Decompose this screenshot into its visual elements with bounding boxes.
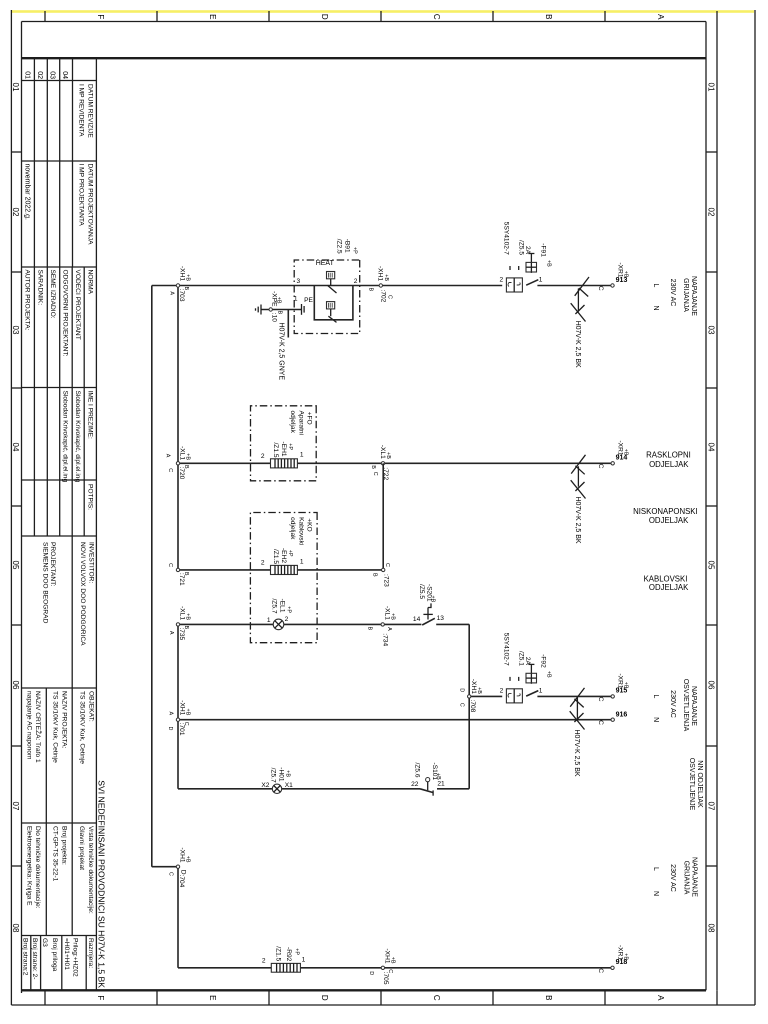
HEAT box bbox=[294, 260, 360, 334]
svg-text:F: F bbox=[96, 14, 105, 19]
svg-text:-F91: -F91 bbox=[539, 243, 546, 257]
svg-text:B: B bbox=[183, 287, 189, 291]
object cell bbox=[25, 691, 94, 764]
svg-text:NAPAJANJE: NAPAJANJE bbox=[691, 857, 698, 897]
svg-text:=H01+H01: =H01+H01 bbox=[63, 938, 70, 970]
svg-text:ODJELJAK: ODJELJAK bbox=[649, 460, 689, 469]
svg-text:/Z5.7: /Z5.7 bbox=[270, 768, 277, 783]
title block row lines bbox=[31, 58, 86, 990]
svg-text:2: 2 bbox=[500, 687, 504, 694]
svg-text:novembar 2022.g.: novembar 2022.g. bbox=[23, 164, 30, 220]
svg-text::705: :705 bbox=[382, 972, 389, 985]
svg-text:22: 22 bbox=[411, 781, 419, 788]
svg-text:B: B bbox=[183, 572, 189, 576]
svg-text:NAZIV CRTEŽA: Trafo 1: NAZIV CRTEŽA: Trafo 1 bbox=[34, 691, 43, 763]
svg-text:1: 1 bbox=[300, 558, 304, 565]
svg-text:03: 03 bbox=[11, 326, 20, 335]
terminal -XH1:705 bbox=[368, 948, 396, 984]
svg-text:-XH1: -XH1 bbox=[178, 847, 185, 862]
svg-text:B: B bbox=[183, 626, 189, 630]
terminal -XPE:10 bbox=[269, 291, 283, 322]
svg-text:+KO: +KO bbox=[306, 518, 313, 531]
svg-text:C: C bbox=[597, 286, 604, 291]
svg-text:TS 35/10kV Kuk, Cetinje: TS 35/10kV Kuk, Cetinje bbox=[51, 691, 58, 763]
svg-text:02: 02 bbox=[36, 71, 43, 79]
ruler numbers bottom bbox=[11, 83, 20, 933]
svg-text:Prilog:+HZ02: Prilog:+HZ02 bbox=[71, 938, 78, 977]
svg-text:C: C bbox=[458, 703, 464, 707]
svg-text:2: 2 bbox=[261, 559, 265, 566]
svg-text:230V AC: 230V AC bbox=[669, 690, 676, 718]
svg-text:913: 913 bbox=[616, 277, 628, 284]
svg-text:A: A bbox=[168, 631, 174, 635]
svg-text:-XH1: -XH1 bbox=[178, 266, 185, 281]
ruler ticks top/bottom bbox=[11, 152, 717, 866]
terminal -XH1:703 bbox=[169, 266, 191, 302]
inner frame top rulers bbox=[716, 22, 718, 991]
svg-text:+P: +P bbox=[293, 948, 299, 955]
zone label NN ODJELJAK OSVJETLJENJE bbox=[688, 758, 703, 811]
svg-text:+FO: +FO bbox=[306, 412, 313, 425]
svg-text:+B: +B bbox=[185, 274, 191, 281]
svg-text:TS 35/10KV Kuk, Cetinje: TS 35/10KV Kuk, Cetinje bbox=[79, 691, 86, 764]
wire EH1 column bbox=[178, 462, 611, 464]
svg-text:07: 07 bbox=[707, 802, 716, 811]
svg-text:03: 03 bbox=[49, 71, 56, 79]
svg-text:X1: X1 bbox=[285, 782, 293, 789]
terminal -XL1:721 bbox=[167, 563, 189, 586]
svg-text:08: 08 bbox=[11, 924, 20, 933]
svg-text:/Z1.5: /Z1.5 bbox=[274, 946, 281, 961]
svg-text:F: F bbox=[96, 995, 105, 1000]
svg-text:C: C bbox=[432, 14, 441, 20]
wire link 722-723 bbox=[382, 463, 384, 570]
terminal -XR1:913 bbox=[597, 262, 628, 290]
svg-text:IME I PREZIME:: IME I PREZIME: bbox=[86, 391, 93, 440]
svg-text:OBJEKAT:: OBJEKAT: bbox=[87, 691, 94, 722]
resistor -R92 bbox=[262, 946, 306, 972]
svg-text:+B: +B bbox=[545, 671, 551, 678]
svg-text:-EH1: -EH1 bbox=[280, 441, 287, 456]
svg-text:5SY4102-7: 5SY4102-7 bbox=[503, 222, 510, 255]
svg-text:POTPIS:: POTPIS: bbox=[86, 484, 93, 510]
svg-text:-XR1: -XR1 bbox=[617, 440, 624, 455]
svg-text:-XH1: -XH1 bbox=[377, 266, 384, 281]
heater element 1 with contact bbox=[327, 272, 337, 294]
terminal -XR1:915 bbox=[597, 673, 628, 701]
svg-text:ODJELJAK: ODJELJAK bbox=[649, 583, 689, 592]
svg-text:+B: +B bbox=[276, 297, 282, 304]
svg-text:Slobodan Krivokapić, dipl.el.i: Slobodan Krivokapić, dipl.el.ing bbox=[62, 391, 69, 483]
svg-text:C: C bbox=[597, 720, 604, 725]
svg-text:H07V-K 2,5 BK: H07V-K 2,5 BK bbox=[574, 497, 581, 544]
svg-text:ODJELJAK: ODJELJAK bbox=[649, 516, 689, 525]
svg-text:-XH1: -XH1 bbox=[470, 679, 477, 694]
svg-text:2: 2 bbox=[262, 958, 266, 965]
terminal -XH1:702 bbox=[368, 266, 393, 303]
svg-text:ODGOVORNI PROJEKTANT:: ODGOVORNI PROJEKTANT: bbox=[62, 270, 69, 357]
heater -EH1 bbox=[261, 441, 304, 467]
svg-text:-XH1: -XH1 bbox=[384, 948, 391, 963]
svg-text::702: :702 bbox=[380, 290, 387, 303]
outer border bottom bbox=[10, 10, 12, 1005]
svg-text:H07V-K 2,5 GNYE: H07V-K 2,5 GNYE bbox=[277, 323, 284, 381]
svg-text:918: 918 bbox=[616, 959, 628, 966]
svg-text:N: N bbox=[652, 891, 659, 896]
terminal -XH1:708 bbox=[458, 679, 482, 713]
wire switched lighting link bbox=[468, 624, 470, 788]
wire lighting N column bbox=[178, 719, 611, 721]
svg-text:01: 01 bbox=[707, 83, 716, 92]
svg-text:A: A bbox=[386, 627, 392, 631]
svg-text::704: :704 bbox=[178, 875, 185, 888]
svg-text:-EH2: -EH2 bbox=[280, 548, 287, 563]
thermostat -B91 labels bbox=[336, 239, 358, 254]
svg-text:I MP REVIDENTA: I MP REVIDENTA bbox=[77, 84, 84, 137]
svg-text:D: D bbox=[368, 971, 374, 975]
svg-text:Broj strana:2: Broj strana:2 bbox=[21, 938, 28, 976]
names column bbox=[62, 391, 94, 511]
svg-text:-XH1: -XH1 bbox=[178, 700, 185, 715]
svg-text:1: 1 bbox=[267, 617, 271, 624]
svg-text:2: 2 bbox=[285, 616, 289, 623]
svg-text::703: :703 bbox=[178, 289, 185, 302]
supply 3 labels bbox=[652, 857, 698, 897]
svg-text:+B: +B bbox=[185, 613, 191, 620]
svg-text:C: C bbox=[387, 969, 393, 973]
svg-text:NOVI VOLVOX DOO PODGORICA: NOVI VOLVOX DOO PODGORICA bbox=[79, 542, 86, 646]
svg-text:02: 02 bbox=[707, 208, 716, 217]
heater loop wire bbox=[314, 286, 353, 320]
svg-text:C: C bbox=[387, 295, 393, 299]
svg-text:SEME IZRADIO:: SEME IZRADIO: bbox=[49, 270, 56, 319]
svg-text:-S101: -S101 bbox=[431, 763, 438, 781]
svg-text:05: 05 bbox=[707, 561, 716, 570]
wire lamp2 column bbox=[437, 788, 469, 790]
sheet edge yellow bbox=[12, 10, 754, 13]
svg-text:C: C bbox=[372, 472, 378, 476]
wire lamp1 column bbox=[436, 623, 469, 625]
svg-text:21: 21 bbox=[437, 780, 445, 787]
svg-text:+B: +B bbox=[385, 452, 391, 459]
svg-text:GRIJANJA: GRIJANJA bbox=[683, 861, 690, 895]
svg-text:SVI NEDEFINISANI PROVODNICI S: SVI NEDEFINISANI PROVODNICI SU H07V-K 1,… bbox=[97, 780, 107, 988]
svg-text:N: N bbox=[652, 717, 659, 722]
PE line bbox=[261, 296, 313, 338]
svg-text:06: 06 bbox=[11, 681, 20, 690]
svg-text:DATUM REVIZIJE: DATUM REVIZIJE bbox=[86, 84, 93, 138]
terminal -XL1:722 bbox=[370, 445, 391, 481]
heater element 2 with contact bbox=[327, 302, 337, 323]
svg-text:01: 01 bbox=[11, 83, 20, 92]
svg-text:/Z1.5: /Z1.5 bbox=[272, 549, 279, 564]
svg-text:AUTOR PROJEKTA:: AUTOR PROJEKTA: bbox=[23, 270, 30, 331]
inner frame right bbox=[22, 989, 707, 991]
svg-text:2: 2 bbox=[500, 277, 504, 284]
lamp -H01 bbox=[261, 767, 293, 793]
svg-text:INVESTITOR:: INVESTITOR: bbox=[87, 542, 94, 583]
svg-text:2: 2 bbox=[354, 278, 358, 285]
zone label KABLOVSKI ODJELJAK bbox=[644, 575, 690, 592]
svg-text:5SY4102-7: 5SY4102-7 bbox=[503, 633, 510, 666]
ruler letters right bbox=[96, 995, 665, 1001]
heater -EH2 bbox=[261, 548, 304, 575]
svg-text:NN ODJELJAK: NN ODJELJAK bbox=[696, 760, 703, 808]
svg-text:B: B bbox=[372, 573, 378, 577]
svg-text:02: 02 bbox=[11, 208, 20, 217]
svg-text:H07V-K 2,5 BK: H07V-K 2,5 BK bbox=[574, 321, 581, 368]
lamp -EL1 bbox=[267, 598, 292, 629]
investor cell bbox=[42, 542, 95, 646]
svg-text:D: D bbox=[320, 995, 329, 1001]
svg-text:NISKONAPONSKI: NISKONAPONSKI bbox=[633, 507, 698, 516]
svg-text:DATUM PROJEKTOVANJA: DATUM PROJEKTOVANJA bbox=[86, 164, 93, 246]
svg-text:/Z5.5: /Z5.5 bbox=[517, 240, 524, 255]
svg-text:odjeljak: odjeljak bbox=[289, 411, 296, 434]
terminal -XH1:701 bbox=[167, 700, 190, 736]
svg-text:Broj projekta:: Broj projekta: bbox=[60, 826, 67, 865]
svg-text:/Z5.6: /Z5.6 bbox=[414, 763, 421, 778]
svg-text:01: 01 bbox=[23, 71, 30, 79]
svg-text:+B: +B bbox=[185, 709, 191, 716]
terminal -XR1:914 bbox=[597, 440, 628, 468]
svg-text:N: N bbox=[652, 305, 659, 310]
svg-text:-XR1: -XR1 bbox=[617, 673, 624, 688]
svg-text:NAPAJANJE: NAPAJANJE bbox=[690, 686, 697, 726]
svg-text:916: 916 bbox=[616, 711, 628, 718]
svg-text:Aparatni: Aparatni bbox=[297, 411, 304, 436]
svg-text:1: 1 bbox=[302, 957, 306, 964]
svg-text:3: 3 bbox=[297, 278, 301, 285]
wire link L rail to 704 bbox=[152, 866, 178, 868]
cable marker supply 914 bbox=[571, 455, 586, 499]
svg-text:odjeljak: odjeljak bbox=[289, 517, 296, 540]
wire R92 column bbox=[178, 967, 611, 969]
svg-text:D: D bbox=[320, 14, 329, 20]
svg-text:D: D bbox=[167, 727, 173, 731]
supply 1 labels bbox=[652, 276, 697, 316]
svg-text:B: B bbox=[366, 627, 372, 631]
svg-text:B: B bbox=[544, 995, 553, 1000]
supply 2 labels bbox=[652, 679, 697, 732]
svg-text:2: 2 bbox=[261, 453, 265, 460]
svg-text:napajanje AC naponom: napajanje AC naponom bbox=[25, 691, 32, 760]
svg-text:Dio tehničke dokumentacije:: Dio tehničke dokumentacije: bbox=[34, 826, 41, 909]
svg-text:1: 1 bbox=[300, 452, 304, 459]
svg-text:+B: +B bbox=[185, 856, 191, 863]
wire heater circuit column bbox=[537, 285, 611, 287]
svg-text:C: C bbox=[167, 872, 173, 876]
svg-text:230V AC: 230V AC bbox=[669, 279, 676, 307]
svg-text:915: 915 bbox=[616, 688, 628, 695]
svg-text:1: 1 bbox=[539, 277, 543, 284]
zone label NISKONAPONSKI ODJELJAK bbox=[633, 507, 698, 525]
wire N rail segment 1 bbox=[177, 286, 179, 570]
svg-text:04: 04 bbox=[61, 71, 68, 79]
svg-text:Glavni projekat: Glavni projekat bbox=[78, 826, 85, 870]
svg-text:+B: +B bbox=[390, 957, 396, 964]
svg-text::734: :734 bbox=[382, 633, 389, 646]
svg-text:-H01: -H01 bbox=[278, 767, 285, 782]
svg-text:C: C bbox=[167, 563, 173, 567]
svg-text:NORMA: NORMA bbox=[86, 270, 93, 295]
svg-text:SIEMENS DOO BEOGRAD: SIEMENS DOO BEOGRAD bbox=[42, 542, 49, 624]
wire N rail segment 3 bbox=[177, 867, 179, 968]
ground bbox=[256, 305, 262, 315]
scale cell bbox=[21, 938, 94, 979]
svg-text:08: 08 bbox=[707, 924, 716, 933]
svg-text:B: B bbox=[368, 288, 374, 292]
terminal -XL1:723 bbox=[372, 563, 390, 587]
svg-text:230V AC: 230V AC bbox=[669, 864, 676, 892]
svg-text:GRIJANJA: GRIJANJA bbox=[682, 278, 689, 312]
svg-text:A: A bbox=[168, 712, 174, 716]
svg-text:/Z5.7: /Z5.7 bbox=[271, 598, 278, 613]
svg-text:-XL1: -XL1 bbox=[379, 445, 386, 459]
cable marker supply 1 bbox=[571, 277, 589, 322]
svg-text:-S201: -S201 bbox=[426, 584, 433, 602]
svg-text:D: D bbox=[458, 688, 464, 692]
svg-text:C: C bbox=[384, 563, 390, 567]
MCB -F92 bbox=[500, 633, 552, 703]
svg-text:-R92: -R92 bbox=[285, 947, 292, 962]
svg-text:+B: +B bbox=[383, 274, 389, 281]
outer border top bbox=[754, 10, 756, 1005]
svg-text:NAPAJANJE: NAPAJANJE bbox=[690, 276, 697, 316]
svg-text:C: C bbox=[183, 722, 189, 726]
svg-text:G3: G3 bbox=[41, 938, 48, 947]
svg-text:+B: +B bbox=[185, 453, 191, 460]
svg-text:-EL1: -EL1 bbox=[278, 599, 285, 613]
svg-text:A: A bbox=[656, 14, 665, 20]
title block verticals bbox=[22, 81, 97, 936]
svg-text:Razmjera:: Razmjera: bbox=[87, 938, 94, 968]
outer border right bbox=[11, 1004, 755, 1006]
zone label RASKLOPNI ODJELJAK bbox=[646, 451, 691, 469]
svg-text:B: B bbox=[370, 465, 376, 469]
svg-text:SARADNIK:: SARADNIK: bbox=[37, 270, 44, 306]
MCB -F91 bbox=[500, 222, 552, 292]
svg-text:PE: PE bbox=[304, 297, 313, 304]
thick column line bbox=[22, 57, 707, 59]
svg-text:07: 07 bbox=[11, 802, 20, 811]
svg-text:14: 14 bbox=[413, 616, 421, 623]
svg-text:1: 1 bbox=[539, 687, 543, 694]
svg-text:OSVJETLJENJE: OSVJETLJENJE bbox=[688, 758, 695, 811]
svg-text:L: L bbox=[652, 694, 659, 698]
svg-text:A: A bbox=[169, 291, 175, 295]
inner frame left bbox=[22, 21, 707, 23]
svg-text:/Z5.5: /Z5.5 bbox=[418, 584, 425, 599]
svg-text:914: 914 bbox=[616, 455, 628, 462]
svg-text:CT-GP-TS 35-22-1: CT-GP-TS 35-22-1 bbox=[52, 826, 59, 882]
svg-text:/Z5.1: /Z5.1 bbox=[517, 651, 524, 666]
svg-text:-XL1: -XL1 bbox=[383, 606, 390, 620]
svg-text:H07V-K 2,5 BK: H07V-K 2,5 BK bbox=[573, 730, 580, 777]
svg-text:-XR1: -XR1 bbox=[617, 945, 624, 960]
cable marker supply 2 bbox=[570, 688, 585, 730]
svg-text:-XR1: -XR1 bbox=[617, 262, 624, 277]
svg-text:B: B bbox=[183, 465, 189, 469]
svg-text:+B: +B bbox=[476, 687, 482, 694]
svg-text:VODECI PROJEKTANT: VODECI PROJEKTANT bbox=[74, 270, 81, 340]
document cell bbox=[25, 826, 94, 914]
svg-text:PROJEKTANT:: PROJEKTANT: bbox=[49, 542, 56, 586]
svg-text:06: 06 bbox=[707, 681, 716, 690]
svg-text:B: B bbox=[277, 311, 283, 315]
svg-text:-XL1: -XL1 bbox=[178, 446, 185, 460]
svg-text:L: L bbox=[652, 867, 659, 871]
roles column bbox=[23, 270, 93, 357]
wire N rail segment 2 bbox=[177, 624, 179, 788]
svg-text:+B: +B bbox=[545, 260, 551, 267]
svg-text::723: :723 bbox=[382, 574, 389, 587]
terminal -XL1:734 bbox=[366, 606, 395, 647]
svg-text:C: C bbox=[597, 968, 604, 973]
svg-text:I MP PROJEKTANTA: I MP PROJEKTANTA bbox=[77, 164, 84, 227]
title block top edge bbox=[95, 58, 97, 990]
svg-text::708: :708 bbox=[469, 700, 476, 713]
wire lighting L column bbox=[537, 695, 611, 697]
svg-text:Broj priloga: Broj priloga bbox=[51, 938, 58, 972]
svg-text:04: 04 bbox=[707, 443, 716, 452]
svg-text:Kablovski: Kablovski bbox=[297, 517, 304, 546]
wire L rail bbox=[151, 286, 153, 867]
inner frame bottom thick bbox=[21, 22, 23, 994]
svg-text:Slobodan Krivokapić, dipl.el.i: Slobodan Krivokapić, dipl.el.ing bbox=[74, 391, 81, 483]
svg-text:05: 05 bbox=[11, 561, 20, 570]
svg-text:03: 03 bbox=[707, 326, 716, 335]
svg-text:/Z2.5: /Z2.5 bbox=[336, 239, 343, 254]
svg-text:+P: +P bbox=[352, 247, 358, 254]
svg-text:X2: X2 bbox=[261, 782, 269, 789]
terminal -XL1:735 bbox=[168, 606, 190, 641]
svg-text:OSVJETLJENJA: OSVJETLJENJA bbox=[682, 679, 689, 732]
svg-text:/Z1.5: /Z1.5 bbox=[272, 442, 279, 457]
svg-text:+B: +B bbox=[390, 613, 396, 620]
svg-text:A: A bbox=[656, 995, 665, 1001]
terminal -XR1:918 bbox=[597, 945, 628, 973]
switch -S101 door contact bbox=[411, 763, 445, 796]
revision numbers bbox=[23, 71, 68, 79]
svg-text:E: E bbox=[208, 14, 217, 19]
terminal -XH1:704 bbox=[167, 847, 190, 887]
svg-text:Elektroenergetika: Knjiga E: Elektroenergetika: Knjiga E bbox=[25, 826, 32, 906]
svg-text:C: C bbox=[167, 468, 173, 472]
ruler numbers top bbox=[707, 83, 716, 933]
svg-text:C: C bbox=[432, 995, 441, 1001]
terminal -XL1:720 bbox=[165, 446, 191, 480]
svg-text:RASKLOPNI: RASKLOPNI bbox=[646, 451, 691, 460]
svg-text:HEAT: HEAT bbox=[316, 260, 335, 267]
svg-text:04: 04 bbox=[11, 443, 20, 452]
svg-text:1: 1 bbox=[294, 296, 298, 303]
ruler letters left bbox=[96, 14, 665, 20]
svg-text::10: :10 bbox=[270, 313, 277, 322]
terminal -XR1:916 bbox=[597, 711, 627, 725]
switch -S201 bbox=[413, 584, 444, 625]
svg-text:NAZIV PROJEKTA:: NAZIV PROJEKTA: bbox=[60, 691, 67, 749]
compartment box +KO bbox=[250, 513, 317, 643]
svg-text:-XL1: -XL1 bbox=[178, 606, 185, 620]
svg-text:E: E bbox=[208, 995, 217, 1000]
svg-text:A: A bbox=[165, 454, 171, 458]
svg-text:C: C bbox=[597, 697, 604, 702]
svg-text:B: B bbox=[544, 14, 553, 19]
wire EH2 column bbox=[178, 569, 383, 571]
svg-text:-B91: -B91 bbox=[344, 239, 351, 253]
svg-text:L: L bbox=[652, 284, 659, 288]
